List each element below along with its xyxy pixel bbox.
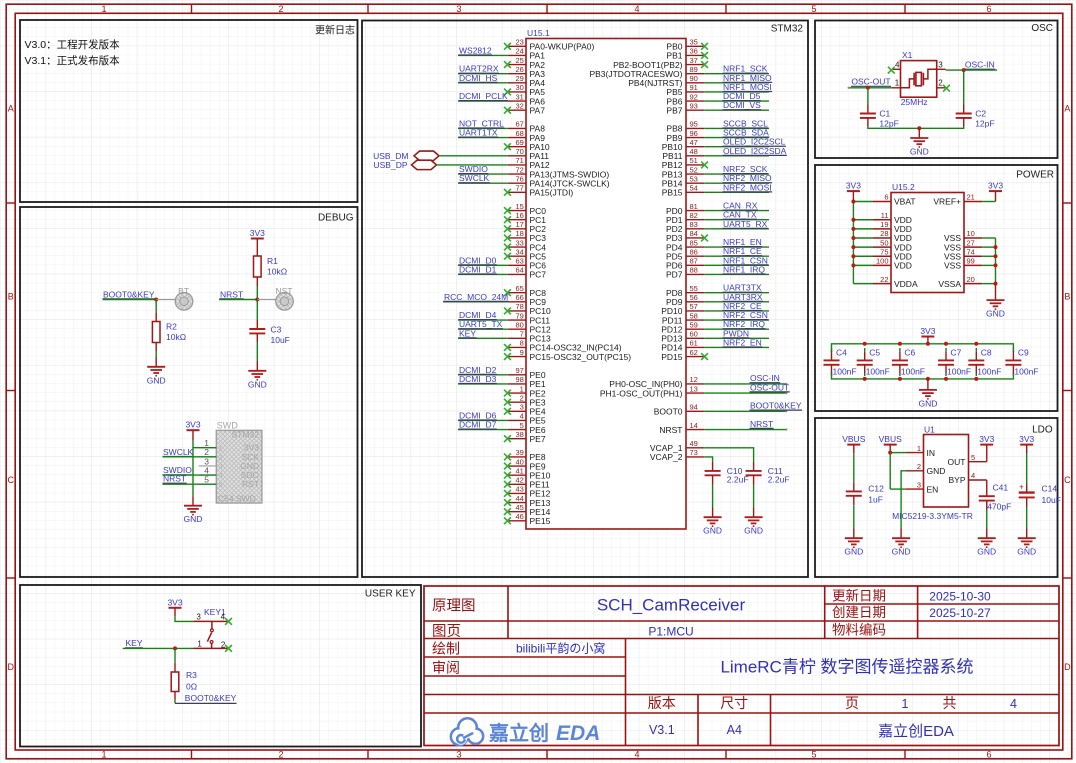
U15.1 pin 73 VCAP_2 [686,456,704,458]
svg-text:79: 79 [515,311,523,320]
U15.1 pin 69 PA10 [508,146,526,148]
svg-text:100nF: 100nF [947,366,971,376]
U15.1 pin 54 PB15 [686,191,704,193]
wire NRF2_EN [704,346,769,348]
svg-text:C9: C9 [1018,348,1029,358]
svg-text:原理图: 原理图 [432,599,476,615]
U15.1 pin 56 PD9 [686,301,704,303]
power flag 3V3 (DEBUG R1) [251,238,264,240]
U15.2 pin 27 VSS [964,246,982,248]
node cap rail junctions C7 [944,342,948,346]
power flag VBUS (C12) [847,444,860,446]
crystal X1 [901,61,937,98]
switch KEY1 bottom contacts [194,647,228,649]
wire OSC-OUT [849,87,892,89]
svg-text:PE15: PE15 [530,516,551,526]
svg-text:C14: C14 [1042,484,1058,494]
U15.1 pin 81 PD0 [686,210,704,212]
crystal X1 pin 3 wire to OSC-IN [937,68,946,70]
wire 3V3 to SWD pin1 [192,430,194,440]
svg-text:PA15(JTDI): PA15(JTDI) [530,188,574,198]
svg-text:VDDA: VDDA [894,279,918,289]
ground GND (U1) [892,537,910,539]
svg-text:LDO: LDO [1032,425,1053,436]
svg-text:GND: GND [986,309,1005,319]
svg-text:11: 11 [881,211,889,220]
svg-text:SWCLK: SWCLK [459,173,490,183]
U15.1 pin 18 PC3 [508,237,526,239]
svg-text:38: 38 [515,430,523,439]
svg-text:41: 41 [515,466,523,475]
U15.1 pin 84 PD3 [686,237,704,239]
svg-text:46: 46 [515,512,523,521]
wire NOT_CTRL [458,127,508,129]
U15.1 pin 85 PD4 [686,246,704,248]
decoupling capacitor rail bottom [832,373,1014,379]
svg-text:44: 44 [515,494,523,503]
svg-text:93: 93 [690,101,698,110]
svg-text:OSC-OUT: OSC-OUT [851,77,890,87]
svg-text:物料编码: 物料编码 [832,623,886,638]
svg-text:C5: C5 [869,348,880,358]
svg-text:DCMI_D1: DCMI_D1 [459,264,497,274]
U15.1 pin 55 PD8 [686,292,704,294]
svg-text:77: 77 [515,184,523,193]
svg-text:4: 4 [634,749,639,759]
svg-text:20: 20 [967,275,975,284]
svg-text:6: 6 [986,749,991,759]
svg-text:85: 85 [690,238,698,247]
svg-text:22: 22 [880,275,888,284]
wire NRST [219,299,257,301]
U15.1 pin 98 PE1 [508,383,526,385]
svg-text:USB_DP: USB_DP [373,160,407,170]
svg-text:3: 3 [219,462,223,471]
U15.1 pin 93 PB7 [686,109,704,111]
svg-text:12pF: 12pF [879,119,898,129]
U15.1 pin 59 PD12 [686,328,704,330]
U15.1 pin 70 PA11 [508,155,526,157]
testpoint NST [276,293,294,311]
svg-text:C8: C8 [981,348,992,358]
wire NRF2_MISO [704,182,769,184]
U15.1 pin 76 PA14(JTCK-SWCLK) [508,182,526,184]
wire NRST [704,429,786,431]
svg-text:NRST: NRST [163,474,186,484]
svg-text:12pF: 12pF [975,119,994,129]
U15.1 pin 33 PC4 [508,246,526,248]
capacitor C12 [846,490,862,492]
wire OSC-IN [964,69,996,71]
wire SWD ground bus [192,448,194,497]
node VBUS junction [888,451,892,455]
node BOOT0&KEY junction [154,298,158,302]
power flag 3V3 (USER KEY) [169,607,182,609]
svg-text:8: 8 [520,339,524,348]
wire R3 to BOOT0&KEY [174,692,176,700]
svg-text:BOOT0&KEY: BOOT0&KEY [750,401,802,411]
U15.2 pin 10 VSS [964,237,982,239]
wire SWDIO [458,173,508,175]
wire NRF1_MOSI [704,91,769,93]
power flag 3V3 (C14) [1020,444,1033,446]
svg-text:VSS: VSS [944,261,961,271]
svg-text:VSSA: VSSA [938,279,961,289]
wire C14 to GND [1026,497,1028,506]
U15.1 pin 30 PA5 [508,91,526,93]
U15.1 pin 25 PA2 [508,64,526,66]
svg-text:NRF1_IRQ: NRF1_IRQ [723,264,765,274]
svg-text:84: 84 [690,229,698,238]
wire NRF1_SCK [704,73,769,75]
U15.1 pin 7 PC13 [508,337,526,339]
frame row ticks right [1063,202,1072,204]
svg-text:KEY: KEY [126,638,143,648]
svg-text:2: 2 [278,749,283,759]
U15.1 pin 96 PB9 [686,137,704,139]
U15.1 pin 3 PE4 [508,410,526,412]
U15.1 pin 9 PC15-OSC32_OUT(PC15) [508,356,526,358]
svg-text:VCAP_2: VCAP_2 [650,452,683,462]
wire C3 to GND [256,333,258,342]
U15.2 pin 20 VSSA [964,283,982,285]
U15.1 pin 42 PE11 [508,483,526,485]
svg-text:3V3: 3V3 [846,181,861,191]
wire UART3RX [704,301,769,303]
svg-text:4: 4 [1010,697,1017,711]
svg-text:PB7: PB7 [666,105,682,115]
U15.1 pin 49 VCAP_1 [686,447,704,449]
ground GND (C3) [248,370,266,372]
svg-text:V3.1：正式发布版本: V3.1：正式发布版本 [25,54,121,67]
svg-text:C3: C3 [271,325,282,335]
U15.1 pin 13 PH1-OSC_OUT(PH1) [686,392,704,394]
wire DCMI_D0 [458,264,508,266]
U15.1 pin 45 PE14 [508,511,526,513]
wire DCMI_D4 [458,319,508,321]
wire cap bank GND [927,379,929,390]
svg-text:OSC-OUT: OSC-OUT [750,382,789,392]
wire DCMI_D2 [458,374,508,376]
svg-text:65: 65 [515,284,523,293]
capacitor C9 100nF [1012,351,1014,360]
svg-text:NRF2_MOSI: NRF2_MOSI [723,182,772,192]
svg-text:73: 73 [690,448,698,457]
logo 嘉立创EDA cloud [451,718,483,745]
node KEY junction [173,646,177,650]
svg-text:尺寸: 尺寸 [720,695,748,711]
U15.1 pin 94 BOOT0 [686,410,704,412]
svg-text:2: 2 [219,452,223,461]
box POWER [815,165,1058,411]
U15.1 pin 66 PC9 [508,301,526,303]
wire RCC_MCO_24M [443,301,508,303]
svg-text:P1:MCU: P1:MCU [648,625,693,639]
svg-text:OSC: OSC [1031,23,1053,34]
wire SWDIO [163,474,217,476]
title block table [424,586,1059,746]
wire UART1TX [458,137,508,139]
capacitor C1 [860,113,876,115]
wire NRF2_CE [704,310,769,312]
wire PWDN [704,337,769,339]
wire NRF2_CSN [704,319,769,321]
U15.2 pin 11 VDD [873,219,891,221]
ground GND (cap bank) [919,389,937,391]
svg-text:R3: R3 [186,670,197,680]
regulator U1 MIC5219 [924,435,969,508]
wire USB_DP [437,164,508,166]
svg-text:48: 48 [690,147,698,156]
node GND junction (OSC) [917,126,921,130]
svg-text:1uF: 1uF [868,495,883,505]
wire DCMI_D1 [458,273,508,275]
U15.1 pin 82 PD1 [686,219,704,221]
wire KEY junction to R3 [174,648,176,663]
wire OLED_I2C2SCL [704,146,769,148]
svg-text:PB15: PB15 [662,188,683,198]
ground GND (C14) [1018,537,1036,539]
svg-text:2.2uF: 2.2uF [727,475,749,485]
capacitor C4 100nF [831,351,833,360]
svg-text:STM32: STM32 [232,430,260,440]
svg-text:10kΩ: 10kΩ [267,267,287,277]
svg-text:58: 58 [690,311,698,320]
svg-text:PD7: PD7 [666,270,683,280]
svg-text:GND: GND [703,526,722,536]
U15.1 pin 31 PA6 [508,100,526,102]
svg-text:86: 86 [690,247,698,256]
wire 3V3 to KEY1 pin3 [174,608,176,617]
svg-text:89: 89 [690,65,698,74]
svg-text:NRST: NRST [220,289,243,299]
wire 3V3 to C14 [1026,445,1028,454]
svg-text:45: 45 [515,503,523,512]
capacitor C5 100nF [864,351,866,360]
frame row ticks left [6,202,15,204]
U15.1 pin 86 PD5 [686,255,704,257]
U15.1 pin 12 PH0-OSC_IN(PH0) [686,383,704,385]
svg-text:NST: NST [276,286,293,296]
U15.1 pin 26 PA3 [508,73,526,75]
wire UART5_RX [704,228,769,230]
svg-text:POWER: POWER [1016,170,1054,181]
svg-text:66: 66 [515,293,523,302]
svg-text:A: A [1064,104,1070,114]
svg-text:C7: C7 [951,348,962,358]
power flag 3V3 (VREF+) [989,190,1002,192]
box DEBUG [20,207,358,577]
svg-text:0Ω: 0Ω [186,682,197,692]
svg-text:PA7: PA7 [530,105,546,115]
U15.2 pin 100 VDD [873,264,891,266]
wire NRF1_CE [704,255,769,257]
svg-text:版本: 版本 [648,695,676,711]
wire C12 to GND [853,496,855,505]
svg-text:SCH_CamReceiver: SCH_CamReceiver [597,596,746,615]
capacitor C8 100nF [975,351,977,360]
svg-text:80: 80 [515,320,523,329]
wire CAN_TX [704,219,769,221]
ground GND (R2) [147,366,165,368]
svg-text:GND: GND [147,375,166,385]
svg-text:bilibili平韵の小窝: bilibili平韵の小窝 [516,641,605,656]
U15.2 pin 21 VREF+ [964,201,982,203]
U15.1 pin 65 PC8 [508,292,526,294]
crystal X1 pin 2 (NC) [937,87,945,89]
svg-text:GND: GND [927,466,946,476]
U15.2 pin 75 VDD [873,255,891,257]
power flag 3V3 (U1 OUT) [980,444,993,446]
wire VCAP_1 to C11 [704,448,753,462]
wire NRF1_EN [704,246,769,248]
wire OSC-IN [704,383,786,385]
svg-text:57: 57 [690,302,698,311]
wire DCMI_D3 [458,383,508,385]
svg-text:3: 3 [520,403,524,412]
U15.1 pin 58 PD11 [686,319,704,321]
decoupling capacitor rail top [832,344,1014,352]
svg-text:1: 1 [101,749,106,759]
svg-text:100nF: 100nF [866,366,890,376]
svg-text:30: 30 [515,83,523,92]
svg-text:42: 42 [515,476,523,485]
svg-text:39: 39 [515,448,523,457]
wire C11 to GND [753,475,755,484]
wire DCMI_PCLK [458,100,508,102]
mcu U15.1 STM32 body [526,39,686,530]
testpoint BT [175,293,193,311]
wire USB_DM [439,155,508,157]
svg-text:25MHz: 25MHz [901,97,928,107]
U15.1 pin 34 PC5 [508,255,526,257]
svg-text:100: 100 [876,257,889,266]
box STM32 [362,21,808,578]
svg-text:4: 4 [634,4,639,14]
svg-text:VDD: VDD [894,261,912,271]
svg-text:C6: C6 [904,348,915,358]
U15.1 pin 15 PC0 [508,210,526,212]
svg-text:82: 82 [690,211,698,220]
svg-text:NRST: NRST [659,425,682,435]
svg-text:17: 17 [515,220,523,229]
svg-text:RST: RST [242,479,259,489]
svg-text:2025-10-30: 2025-10-30 [929,590,991,604]
port flag USB_DM [414,151,439,160]
U15.1 pin 71 PA12 [508,164,526,166]
svg-text:GND: GND [892,547,911,557]
svg-text:91: 91 [690,83,698,92]
svg-text:9: 9 [520,348,524,357]
svg-text:69: 69 [515,138,523,147]
U15.1 pin 2 PE3 [508,401,526,403]
U15.1 pin 64 PC7 [508,273,526,275]
U15.1 pin 92 PB6 [686,100,704,102]
svg-text:1: 1 [895,79,900,88]
wire R2 to GND [155,343,157,352]
svg-text:BOOT0&KEY: BOOT0&KEY [103,289,155,299]
svg-text:100nF: 100nF [1014,366,1038,376]
wire UART2RX [458,73,508,75]
U15.1 pin 77 PA15(JTDI) [508,191,526,193]
svg-text:3: 3 [456,4,461,14]
wire 3V3 to rail [927,337,929,344]
wire KEY [123,647,194,649]
svg-text:DCMI_VS: DCMI_VS [723,100,761,110]
svg-text:72: 72 [515,165,523,174]
svg-text:68: 68 [515,129,523,138]
svg-text:67: 67 [515,120,523,129]
svg-text:C1: C1 [879,109,890,119]
wire UART3TX [704,292,769,294]
U15.1 pin 79 PC11 [508,319,526,321]
svg-text:C: C [8,475,15,485]
svg-text:GND: GND [844,547,863,557]
svg-text:1: 1 [917,444,921,453]
svg-text:63: 63 [515,257,523,266]
svg-text:35: 35 [690,38,698,47]
wire NRF2_IRQ [704,328,769,330]
U15.1 pin 72 PA13(JTMS-SWDIO) [508,173,526,175]
svg-text:3: 3 [456,749,461,759]
no-connect X on KEY1 pin 2 [225,645,232,652]
wire DCMI_D5 [704,100,769,102]
svg-text:X1: X1 [902,50,913,60]
U15.1 pin 83 PD2 [686,228,704,230]
svg-text:OUT: OUT [948,457,966,467]
node NRST junction [255,298,259,302]
power flag VBUS (U1) [884,444,897,446]
wire to testpoint BT [156,299,176,301]
U15.1 pin 5 PE6 [508,429,526,431]
wire NRST node to C3 [256,300,258,321]
svg-text:B: B [8,292,14,302]
svg-text:98: 98 [515,375,523,384]
svg-text:创建日期: 创建日期 [832,605,886,620]
U15.1 pin 95 PB8 [686,127,704,129]
svg-text:81: 81 [690,202,698,211]
U15.2 pin 6 VBAT [873,201,891,203]
svg-text:嘉立创EDA: 嘉立创EDA [878,723,954,740]
svg-text:61: 61 [690,339,698,348]
wire to GND (OSC) [918,128,920,137]
svg-text:图页: 图页 [432,624,461,640]
wire NRF1_CSN [704,264,769,266]
svg-text:OLED_I2C2SDA: OLED_I2C2SDA [723,146,787,156]
U15.1 pin 16 PC1 [508,219,526,221]
svg-text:13: 13 [690,384,698,393]
svg-text:3V3: 3V3 [920,326,935,336]
U15.2 pin 99 VSS [964,264,982,266]
U15.1 pin 48 PB11 [686,155,704,157]
svg-text:33: 33 [515,238,523,247]
wire NRF1_MISO [704,82,769,84]
U15.1 pin 87 PD6 [686,264,704,266]
svg-text:55: 55 [690,284,698,293]
svg-text:GND: GND [918,398,937,408]
U15.2 pin 28 VDD [873,237,891,239]
svg-text:2: 2 [278,4,283,14]
U15.1 pin 61 PD14 [686,346,704,348]
svg-text:C54 SWD: C54 SWD [218,493,256,503]
svg-text:更新日志: 更新日志 [315,24,355,37]
svg-text:3V3: 3V3 [250,228,265,238]
wire C10 to GND [712,475,714,484]
ground GND (C41) [978,537,996,539]
svg-text:60: 60 [690,330,698,339]
wire DCMI_HS [458,82,508,84]
U15.1 pin 39 PE8 [508,456,526,458]
